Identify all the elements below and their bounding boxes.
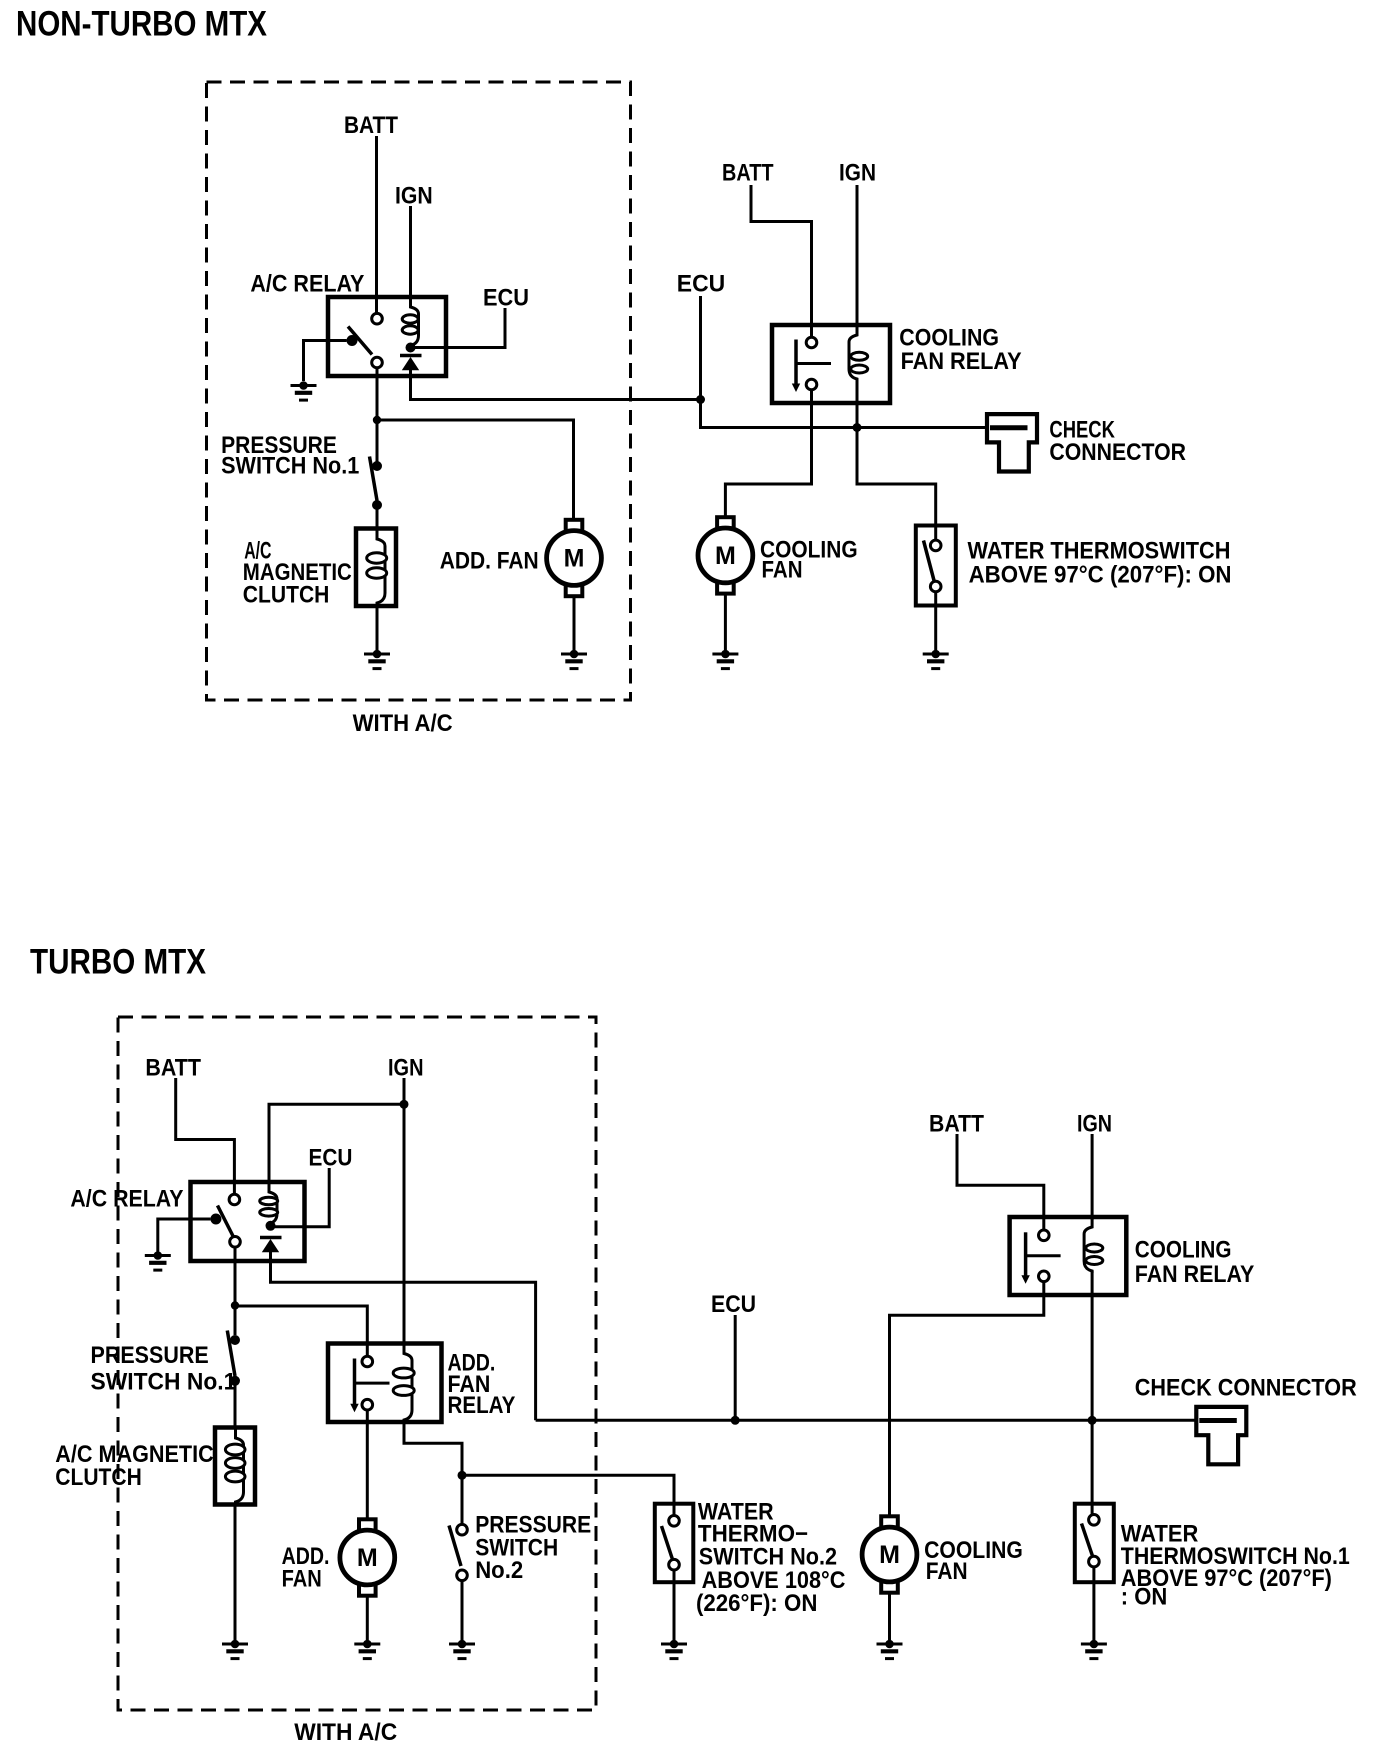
junction node coil-diode-ECU (turbo) [266, 1221, 276, 1231]
wire add fan relay contact output to motor (turbo) [366, 1410, 369, 1520]
wire relay coil return down to thermoswitch No.1 (turbo) [1091, 1271, 1094, 1515]
junction node coil return / check connector (non-turbo) [853, 423, 862, 432]
svg-text:SWITCH No.1: SWITCH No.1 [91, 1369, 237, 1396]
A/C magnetic clutch coil winding (non-turbo) [367, 529, 387, 605]
pressure switch No.2 (turbo) [449, 1524, 467, 1580]
svg-text:CHECK CONNECTOR: CHECK CONNECTOR [1135, 1374, 1357, 1401]
wire BATT to cooling fan relay (turbo) [957, 1134, 1044, 1231]
svg-text:A/C RELAY: A/C RELAY [70, 1186, 183, 1213]
motor M ADD. FAN (turbo) [340, 1519, 395, 1595]
wire to ECU (non-turbo left) [411, 308, 506, 348]
A/C relay BATT terminal pin [372, 313, 383, 324]
wire BATT to cooling fan relay [751, 185, 812, 338]
wire pressure switch to clutch (turbo) [234, 1381, 237, 1428]
svg-text:ECU: ECU [483, 285, 529, 312]
svg-text:IGN: IGN [388, 1055, 424, 1082]
wire relay coil return to thermoswitch [857, 379, 936, 541]
svg-text:FAN: FAN [762, 557, 803, 584]
junction node coil-diode-ECU (non-turbo) [406, 343, 416, 353]
svg-text:FAN: FAN [926, 1558, 968, 1585]
wire thermoswitch No.1 to ground [1092, 1567, 1095, 1640]
svg-text:FAN RELAY: FAN RELAY [901, 348, 1022, 375]
check connector (turbo) [1196, 1407, 1246, 1464]
wire A/C relay common to ground [304, 341, 347, 382]
motor M ADD. FAN (non-turbo) [547, 520, 602, 596]
ground (A/C relay, turbo) [145, 1251, 171, 1270]
wire ECU down to long line (turbo) [734, 1315, 737, 1420]
wire thermoswitch to ground [934, 592, 937, 650]
wire branch to add fan relay contact (turbo) [235, 1306, 367, 1357]
ground (pressure switch No.2, turbo) [449, 1640, 475, 1659]
ground (A/C relay, non-turbo) [291, 381, 317, 400]
svg-text:NON-TURBO MTX: NON-TURBO MTX [16, 5, 268, 44]
svg-text:M: M [715, 542, 736, 570]
junction node relay coil / long line (turbo) [1088, 1416, 1097, 1425]
A/C relay switch contact (turbo) [210, 1206, 240, 1248]
junction node ECU / long line (turbo) [731, 1416, 740, 1425]
water thermoswitch No.2 contacts (turbo) [662, 1516, 680, 1570]
svg-text:A/C RELAY: A/C RELAY [250, 271, 364, 298]
svg-text:ECU: ECU [677, 271, 725, 298]
svg-text:WITH A/C: WITH A/C [353, 710, 453, 737]
wire IGN to A/C relay coil [409, 206, 412, 300]
svg-text:M: M [879, 1541, 900, 1569]
label PRESSURE SWITCH No.1 (non-turbo) [221, 432, 359, 480]
wire thermoswitch No.2 to ground [673, 1570, 676, 1640]
A/C relay coil L (non-turbo) [402, 297, 418, 348]
wire clutch to ground [376, 605, 379, 650]
svg-text:M: M [357, 1544, 378, 1572]
relay A/C RELAY box (turbo) [191, 1182, 305, 1261]
wire BATT to A/C relay [375, 136, 378, 314]
wire add fan relay coil to pressure switch No.2 node [404, 1422, 462, 1471]
A/C relay BATT terminal pin (turbo) [229, 1194, 240, 1205]
add fan relay contact (turbo) [350, 1356, 389, 1412]
wire IGN to cooling fan relay coil (turbo) [1091, 1134, 1094, 1220]
water thermoswitch box (non-turbo) [916, 526, 956, 606]
label ADD. FAN (turbo) [282, 1543, 330, 1593]
wire clutch to ground (turbo) [234, 1504, 237, 1640]
ground (add fan motor, turbo) [354, 1640, 380, 1659]
svg-text:No.2: No.2 [475, 1557, 523, 1584]
wire ECU down to node [699, 296, 702, 400]
ground (cooling fan, turbo) [877, 1640, 903, 1659]
junction node IGN branch (turbo) [400, 1100, 409, 1109]
label A/C MAGNETIC CLUTCH (non-turbo) [243, 538, 352, 609]
dashed enclosure WITH A/C (turbo) [118, 1017, 596, 1710]
A/C relay switch contact (common dot, blade, output pin) [347, 327, 383, 368]
svg-text:ECU: ECU [711, 1291, 756, 1318]
wire A/C relay switch output down (turbo) [234, 1247, 237, 1306]
svg-text:WITH A/C: WITH A/C [294, 1719, 397, 1742]
wire node to check connector line [701, 400, 1000, 428]
ground (thermoswitch, non-turbo) [923, 650, 949, 669]
diode D1 inside A/C relay (non-turbo) [400, 356, 422, 371]
cooling fan relay contact (turbo) [1021, 1230, 1060, 1284]
wire to pressure switch No.1 [376, 420, 379, 462]
wire relay contact output to cooling fan motor (turbo) [890, 1282, 1044, 1520]
ground (magnetic clutch, non-turbo) [364, 650, 390, 669]
junction node switch output branch (turbo) [231, 1301, 239, 1309]
water thermoswitch No.1 box (turbo) [1075, 1504, 1114, 1583]
label COOLING FAN RELAY (turbo) [1135, 1237, 1255, 1288]
A/C magnetic clutch coil box (non-turbo) [356, 529, 396, 607]
svg-text:FAN RELAY: FAN RELAY [1135, 1261, 1255, 1288]
wire long ECU / check connector line (turbo) [536, 1419, 1208, 1422]
wire diode output to long ECU/check line (turbo) [271, 1252, 536, 1420]
water thermoswitch contacts (non-turbo) [924, 540, 942, 592]
wire add-fan motor to ground [573, 597, 576, 651]
svg-text:CLUTCH: CLUTCH [243, 581, 330, 608]
A/C magnetic clutch coil winding (turbo) [225, 1428, 245, 1504]
svg-text:M: M [564, 545, 585, 573]
label ADD. FAN RELAY (turbo) [448, 1349, 516, 1419]
ground (thermoswitch No.1, turbo) [1081, 1640, 1107, 1659]
ground (thermoswitch No.2, turbo) [661, 1640, 687, 1659]
wire A/C relay switch output down [376, 368, 379, 420]
relay COOLING FAN RELAY box (turbo) [1010, 1217, 1127, 1295]
wire relay contact output to cooling fan motor [725, 390, 811, 521]
wire IGN branch to A/C relay coil (turbo) [269, 1104, 404, 1183]
label COOLING FAN (turbo) [924, 1537, 1023, 1585]
relay COOLING FAN RELAY box (non-turbo) [772, 325, 890, 403]
junction node ECU / diode line (non-turbo) [696, 395, 705, 404]
svg-text:TURBO MTX: TURBO MTX [30, 943, 207, 982]
wire node to water thermoswitch No.2 [462, 1475, 674, 1515]
svg-text:(226°F): ON: (226°F): ON [696, 1590, 817, 1617]
wire IGN trunk down to add fan relay coil (turbo) [403, 1078, 406, 1344]
svg-text:ABOVE 97°C (207°F): ON: ABOVE 97°C (207°F): ON [969, 562, 1232, 589]
wire A/C relay common to ground (turbo) [158, 1219, 211, 1252]
relay A/C RELAY box (non-turbo) [328, 297, 446, 376]
svg-text:SWITCH No.1: SWITCH No.1 [221, 452, 359, 479]
svg-text:CLUTCH: CLUTCH [55, 1464, 142, 1491]
add fan relay coil (turbo) [393, 1344, 414, 1423]
label PRESSURE SWITCH No.2 (turbo) [475, 1511, 591, 1584]
label COOLING FAN RELAY (non-turbo) [899, 324, 1021, 375]
junction node pressure-switch / add-fan branch [373, 416, 381, 424]
label CHECK CONNECTOR (non-turbo) [1049, 416, 1186, 466]
ground (add fan, non-turbo) [561, 650, 587, 669]
label PRESSURE SWITCH No.1 (turbo) [91, 1342, 237, 1396]
svg-text:BATT: BATT [929, 1110, 984, 1137]
cooling fan relay coil (turbo) [1084, 1217, 1103, 1273]
wire pressure switch to magnetic clutch [376, 505, 379, 529]
wire pressure switch No.2 to ground [461, 1581, 464, 1640]
svg-text:PRESSURE: PRESSURE [91, 1342, 209, 1369]
cooling fan relay coil (non-turbo) [849, 325, 868, 381]
label COOLING FAN (non-turbo) [760, 537, 858, 584]
A/C magnetic clutch coil box (turbo) [215, 1428, 255, 1505]
svg-text:CONNECTOR: CONNECTOR [1049, 439, 1186, 466]
motor M COOLING FAN (non-turbo) [698, 517, 753, 593]
svg-text:ECU: ECU [309, 1145, 353, 1172]
wire IGN to cooling fan relay coil [856, 185, 859, 328]
junction node pressure switch No.2 / thermoswitch No.2 (turbo) [458, 1471, 467, 1480]
wire cooling fan motor to ground (turbo) [888, 1593, 891, 1640]
svg-text:BATT: BATT [344, 112, 398, 139]
svg-text:IGN: IGN [839, 160, 876, 187]
water thermoswitch No.2 box (turbo) [655, 1504, 694, 1583]
wire node to pressure switch No.2 [461, 1475, 464, 1524]
pressure switch No.1 (turbo) [227, 1331, 240, 1386]
dashed enclosure WITH A/C (non-turbo) [207, 82, 631, 700]
diode D2 inside A/C relay (turbo) [260, 1238, 282, 1253]
wire BATT to A/C relay (turbo) [176, 1078, 235, 1195]
svg-text:: ON: : ON [1121, 1584, 1168, 1611]
motor M COOLING FAN (turbo) [862, 1516, 917, 1592]
wire branch to ADD. FAN motor [377, 420, 574, 520]
wire add fan motor to ground (turbo) [366, 1596, 369, 1640]
svg-text:RELAY: RELAY [448, 1392, 516, 1419]
A/C relay coil L (turbo) [260, 1182, 278, 1226]
water thermoswitch No.1 contacts (turbo) [1082, 1515, 1100, 1567]
label WATER THERMOSWITCH ABOVE 97degC (non-turbo) [968, 538, 1232, 589]
svg-text:BATT: BATT [722, 160, 774, 187]
label A/C MAGNETIC CLUTCH (turbo) [55, 1441, 213, 1491]
ground (cooling fan, non-turbo) [712, 650, 738, 669]
wire to pressure switch No.1 (turbo) [234, 1306, 237, 1336]
wire cooling fan motor to ground [724, 594, 727, 650]
svg-text:BATT: BATT [145, 1055, 201, 1082]
svg-text:COOLING: COOLING [1135, 1237, 1232, 1264]
ground (magnetic clutch, turbo) [222, 1640, 248, 1659]
label WATER THERMOSWITCH No.1 ABOVE 97degC (turbo) [1121, 1520, 1350, 1610]
wire diode output to cooling-fan-relay branch [411, 370, 701, 400]
cooling fan relay contact (non-turbo) [792, 337, 831, 392]
pressure switch No.1 (non-turbo) [370, 457, 383, 511]
wire to ECU (turbo left) [271, 1168, 330, 1227]
svg-text:ADD. FAN: ADD. FAN [440, 548, 539, 575]
svg-text:FAN: FAN [282, 1566, 322, 1593]
relay ADD. FAN RELAY box (turbo) [328, 1344, 442, 1423]
check connector (non-turbo) [987, 414, 1037, 471]
svg-text:IGN: IGN [1077, 1110, 1112, 1137]
label WATER THERMO-SWITCH No.2 ABOVE 108degC (turbo) [696, 1499, 845, 1618]
svg-text:IGN: IGN [395, 183, 433, 210]
